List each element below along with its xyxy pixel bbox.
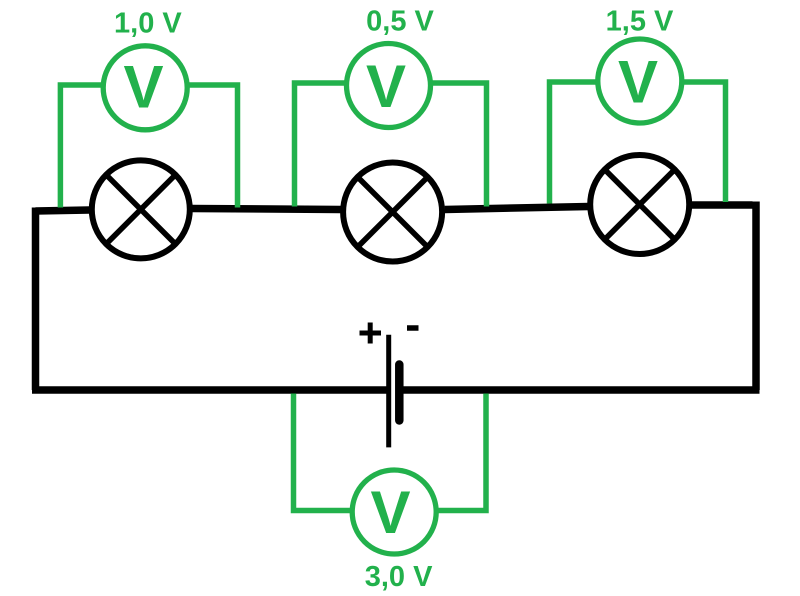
wire voltmeter V2 right lead bbox=[429, 83, 487, 207]
battery plus label bbox=[360, 323, 382, 344]
svg-text:1,5 V: 1,5 V bbox=[606, 6, 674, 38]
wire right vertical of loop bbox=[752, 202, 760, 391]
voltmeter V1 bbox=[103, 46, 187, 130]
wire bottom left (corner to battery positive) bbox=[32, 386, 387, 394]
wire voltmeter V1 left lead bbox=[60, 85, 104, 208]
svg-text:V: V bbox=[618, 48, 658, 115]
wire bottom right (battery negative to corner) bbox=[402, 386, 760, 394]
wire voltmeter V4 left lead bbox=[294, 394, 354, 511]
voltmeter V3 bbox=[598, 39, 682, 123]
wire voltmeter V2 left lead bbox=[295, 83, 349, 207]
battery minus label bbox=[407, 325, 419, 331]
wire top segment left (battery loop to lamp L1) bbox=[36, 210, 90, 211]
voltmeter V4 bbox=[352, 470, 436, 554]
wire top segment L3 to right corner bbox=[691, 201, 753, 209]
svg-text:V: V bbox=[123, 53, 163, 120]
wire voltmeter V3 right lead bbox=[681, 82, 726, 202]
lamp L3 bbox=[590, 155, 689, 254]
label 0,5 V bbox=[366, 6, 434, 38]
svg-text:V: V bbox=[366, 53, 406, 120]
label 1,0 V bbox=[114, 8, 182, 40]
wire top segment between L2 and L3 bbox=[445, 207, 589, 210]
svg-text:V: V bbox=[370, 479, 410, 546]
wire voltmeter V1 right lead bbox=[187, 85, 238, 208]
svg-text:3,0 V: 3,0 V bbox=[365, 561, 433, 593]
label 3,0 V bbox=[365, 561, 433, 593]
battery B1 negative plate (short thick line) bbox=[395, 365, 404, 421]
wire left vertical of loop bbox=[32, 208, 40, 391]
wire voltmeter V4 right lead bbox=[435, 394, 486, 511]
voltmeter V2 bbox=[347, 44, 431, 128]
lamp L1 bbox=[92, 160, 190, 258]
wire top segment between L1 and L2 bbox=[192, 209, 341, 210]
label 1,5 V bbox=[606, 6, 674, 38]
svg-text:1,0 V: 1,0 V bbox=[114, 8, 182, 40]
battery B1 positive plate (long line) bbox=[386, 335, 391, 448]
svg-text:0,5 V: 0,5 V bbox=[366, 6, 434, 38]
lamp L2 bbox=[343, 163, 442, 262]
wire voltmeter V3 left lead bbox=[550, 82, 599, 204]
